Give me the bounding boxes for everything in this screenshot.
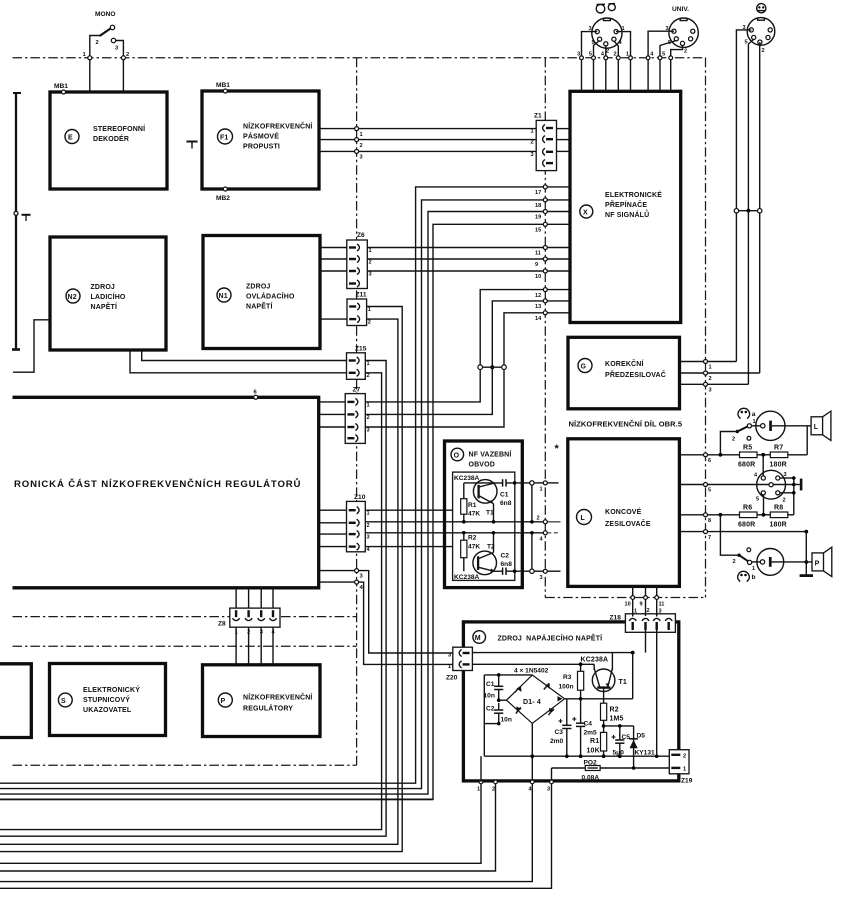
- svg-text:3: 3: [448, 653, 451, 659]
- svg-text:1: 1: [752, 566, 755, 572]
- block F1 band filters: [202, 91, 319, 189]
- connector Z1: [536, 120, 556, 170]
- svg-text:a: a: [752, 411, 756, 418]
- svg-text:5: 5: [756, 497, 759, 503]
- svg-text:2: 2: [683, 754, 686, 760]
- svg-text:2: 2: [492, 787, 495, 793]
- svg-text:R6: R6: [743, 505, 752, 512]
- svg-text:5: 5: [745, 40, 748, 46]
- wires junction row down to G outputs: [735, 213, 737, 362]
- svg-text:REGULÁTORY: REGULÁTORY: [243, 704, 293, 713]
- wires G outputs to right: [680, 361, 737, 363]
- svg-text:1: 1: [360, 132, 363, 138]
- svg-text:b: b: [752, 574, 756, 581]
- block X electronic switches: [570, 91, 681, 322]
- svg-text:OBVOD: OBVOD: [469, 462, 495, 469]
- svg-text:Z18: Z18: [610, 615, 622, 622]
- svg-text:MB2: MB2: [216, 195, 230, 202]
- ground symbol left of F1: [187, 141, 198, 143]
- svg-text:1: 1: [626, 52, 629, 58]
- svg-text:NÍZKOFREKVENČNÍ: NÍZKOFREKVENČNÍ: [243, 693, 313, 702]
- svg-text:X: X: [583, 210, 588, 217]
- svg-text:ZDROJ: ZDROJ: [246, 284, 270, 291]
- svg-text:14: 14: [535, 316, 542, 322]
- svg-text:680R: 680R: [738, 522, 755, 529]
- svg-text:10K: 10K: [587, 748, 600, 755]
- wires DIN B pins down: [648, 31, 674, 91]
- wire node12 to circle A: [480, 290, 543, 366]
- svg-text:1: 1: [540, 487, 543, 493]
- wire R2 bottom to C5 D5: [604, 725, 634, 727]
- inner frame KC238A: [453, 472, 515, 580]
- capacitor C5: [619, 726, 621, 740]
- svg-text:D1- 4: D1- 4: [523, 699, 541, 706]
- svg-text:180R: 180R: [770, 462, 787, 469]
- svg-text:6: 6: [708, 458, 711, 464]
- wire switch left leg: [90, 36, 100, 93]
- svg-text:R5: R5: [743, 445, 752, 452]
- bus nodes for DIN wires: [580, 56, 584, 60]
- left vertical A to rail: [483, 675, 485, 756]
- connector Z11: [347, 299, 367, 326]
- svg-text:ELEKTRONICKÉ: ELEKTRONICKÉ: [605, 190, 662, 199]
- wire Z15 pin1 out: [0, 361, 386, 837]
- svg-text:DEKODÉR: DEKODÉR: [93, 134, 129, 143]
- dash-dot horizontal y=597.5: [545, 597, 705, 599]
- svg-text:2: 2: [531, 140, 534, 146]
- svg-text:*: *: [555, 443, 560, 455]
- svg-text:PO2: PO2: [584, 760, 598, 767]
- switch a: [736, 430, 739, 433]
- svg-text:T1: T1: [619, 679, 627, 686]
- junction dot B: [490, 365, 494, 369]
- DIN output socket: [757, 470, 786, 499]
- svg-text:2m5: 2m5: [584, 730, 598, 737]
- junction link A-B-C: [483, 366, 502, 368]
- svg-text:2: 2: [537, 516, 540, 522]
- resistor R5: [740, 452, 758, 458]
- block O NF coupling circuit: [445, 441, 523, 588]
- switch MONO contact 3: [111, 38, 115, 42]
- resistor R2 psu: [601, 703, 607, 720]
- wire node14 to circle C: [504, 313, 543, 365]
- svg-text:L: L: [814, 424, 819, 431]
- drop node2 to bus: [0, 784, 496, 871]
- svg-text:1: 1: [753, 419, 756, 425]
- svg-text:PROPUSTI: PROPUSTI: [243, 144, 280, 151]
- svg-text:4 × 1N5402: 4 × 1N5402: [514, 668, 549, 675]
- svg-text:7: 7: [708, 535, 711, 541]
- wire L output 6 with R5 R7: [679, 454, 739, 456]
- mic icon above DIN C: [757, 4, 766, 13]
- drop node1 to bus: [0, 784, 481, 864]
- svg-text:LADICÍHO: LADICÍHO: [91, 292, 126, 301]
- svg-text:NAPĚTÍ: NAPĚTÍ: [246, 302, 273, 311]
- jack socket b: [757, 549, 784, 576]
- svg-text:N2: N2: [68, 294, 77, 301]
- resistor R3: [578, 671, 584, 690]
- svg-text:Z15: Z15: [355, 346, 367, 353]
- transistor T2: [473, 551, 497, 575]
- circle C inline connector: [502, 365, 507, 370]
- line 4 from Z10 pin3: [365, 532, 543, 534]
- svg-text:R3: R3: [563, 674, 572, 681]
- svg-text:9: 9: [640, 602, 643, 608]
- bridge rectifier D1-4: [507, 675, 565, 723]
- svg-text:1: 1: [634, 609, 637, 615]
- svg-text:STUPNICOVÝ: STUPNICOVÝ: [83, 695, 130, 704]
- svg-text:1: 1: [367, 361, 370, 367]
- wire node3 big box to Z20 top: [319, 571, 453, 653]
- node MB1 on F1: [223, 89, 227, 93]
- svg-text:F1: F1: [220, 135, 228, 142]
- svg-text:2: 2: [709, 376, 712, 382]
- ground bar: [800, 574, 813, 577]
- svg-text:NAPĚTÍ: NAPĚTÍ: [91, 302, 118, 311]
- svg-text:R1: R1: [468, 502, 477, 509]
- svg-text:8: 8: [708, 518, 711, 524]
- svg-text:2: 2: [369, 259, 372, 265]
- svg-text:NF VAZEBNÍ: NF VAZEBNÍ: [469, 450, 513, 459]
- svg-text:PÁSMOVÉ: PÁSMOVÉ: [243, 132, 279, 141]
- wire pin5 down to R6R8 node: [763, 495, 765, 515]
- capacitor C1: [502, 479, 504, 486]
- wire jack a to speaker L: [772, 425, 811, 427]
- svg-text:6n8: 6n8: [501, 561, 513, 568]
- transistor T1 PSU: [592, 669, 615, 692]
- top wire to bridge: [484, 674, 532, 676]
- wires big box to Z8: [235, 588, 237, 608]
- svg-text:3: 3: [659, 609, 662, 615]
- svg-text:9: 9: [535, 262, 538, 268]
- svg-text:2: 2: [614, 52, 617, 58]
- block S electronic scale indicator: [50, 664, 166, 736]
- svg-text:R2: R2: [610, 707, 619, 714]
- svg-text:2: 2: [96, 40, 99, 46]
- svg-text:PŘEPÍNAČE: PŘEPÍNAČE: [605, 200, 647, 209]
- wire pin2 to right bar: [780, 492, 794, 494]
- svg-text:19: 19: [535, 215, 541, 221]
- svg-text:5: 5: [589, 52, 592, 58]
- connector Z19: [669, 750, 689, 774]
- svg-text:3: 3: [531, 152, 534, 158]
- svg-text:RONICKÁ ČÁST NÍZKOFREKVENČNÍCH: RONICKÁ ČÁST NÍZKOFREKVENČNÍCH REGULÁTOR…: [14, 478, 301, 490]
- svg-text:Z1: Z1: [534, 113, 542, 120]
- svg-text:KC238A: KC238A: [454, 475, 480, 482]
- drop from junction down to bridge-right rail: [632, 653, 634, 699]
- svg-text:C2: C2: [501, 553, 510, 560]
- vertical to ground under speaker P: [805, 532, 807, 576]
- connector Z15: [347, 353, 366, 380]
- svg-text:6n8: 6n8: [500, 500, 512, 507]
- connector Z7: [345, 394, 365, 444]
- svg-text:S: S: [61, 698, 66, 705]
- wire L output 5 to DIN: [679, 484, 793, 486]
- vertical tie and plug tip: [793, 478, 795, 515]
- svg-text:3: 3: [547, 787, 550, 793]
- wires big box to Z7: [319, 401, 346, 403]
- wire N1 to Z11 pin2: [320, 318, 347, 320]
- wires F1 to Z1: [319, 128, 536, 130]
- svg-text:Z10: Z10: [354, 494, 366, 501]
- svg-text:15: 15: [535, 228, 541, 234]
- svg-text:L: L: [581, 515, 586, 522]
- svg-text:1: 1: [367, 402, 370, 408]
- svg-text:2: 2: [367, 373, 370, 379]
- node 1 on dash bus: [88, 56, 92, 60]
- svg-text:3: 3: [784, 472, 787, 478]
- svg-text:3: 3: [367, 427, 370, 433]
- block G correction preamp: [568, 337, 680, 409]
- dash-dot bus top horizontal: [13, 57, 706, 59]
- wire Z20 pin1 to T1 area: [472, 663, 594, 665]
- tie T2 upper limb to line 4: [493, 533, 495, 553]
- svg-text:MB1: MB1: [54, 83, 68, 90]
- wire N2 bottom to Z15 pin1: [142, 350, 347, 361]
- svg-text:11: 11: [535, 251, 541, 257]
- wire node4 big box to Z20 bottom: [319, 582, 453, 664]
- svg-text:2: 2: [367, 415, 370, 421]
- svg-text:PŘEDZESILOVAČ: PŘEDZESILOVAČ: [605, 370, 666, 379]
- wire Z10 pin1 into box O: [365, 509, 452, 511]
- wire switch right leg: [116, 41, 124, 93]
- bridge right horizontal y=698.8: [565, 698, 633, 700]
- wires big box to Z10: [319, 509, 346, 511]
- wire R7 up to speaker line: [806, 426, 808, 455]
- capacitor C3: [566, 699, 568, 726]
- tie line4 to line3 via circle: [531, 533, 533, 569]
- svg-text:R2: R2: [468, 535, 477, 542]
- big block low-frequency regulators electronic part: [13, 397, 319, 588]
- svg-text:13: 13: [535, 304, 541, 310]
- PO2 fuse wire: [552, 767, 670, 769]
- wire Z10 pin4 into box O: [365, 546, 452, 548]
- wire Z11 pin1 out: [0, 307, 402, 852]
- svg-text:Z11: Z11: [356, 292, 367, 299]
- block L output amplifiers: [568, 439, 680, 587]
- svg-text:1M5: 1M5: [610, 716, 624, 723]
- resistor R7: [770, 452, 788, 458]
- box M bottom nodes and drops to bottom buses: [479, 780, 483, 784]
- svg-text:12: 12: [535, 293, 541, 299]
- jack socket a: [756, 411, 785, 440]
- resistor R8: [770, 512, 788, 518]
- diode D5: [633, 726, 635, 768]
- svg-text:MONO: MONO: [95, 11, 116, 18]
- svg-text:O: O: [454, 453, 460, 460]
- node MB2 on F1: [223, 187, 227, 191]
- wire R5R7 node down to pin4: [762, 455, 764, 476]
- cut box left of S: [0, 664, 31, 738]
- svg-text:18: 18: [535, 203, 541, 209]
- wire jack b to speaker P: [772, 561, 812, 563]
- wires Z6 outputs to nodes 11 9 10: [367, 247, 543, 249]
- svg-text:D5: D5: [637, 733, 646, 740]
- node 6 on big box top: [254, 395, 258, 399]
- connector Z6: [347, 240, 368, 289]
- line 1 connector chain: [513, 481, 517, 485]
- capacitor C2: [502, 568, 504, 575]
- resistor R2: [461, 540, 467, 558]
- node 2 on dash bus: [121, 56, 125, 60]
- wires Z1 to box X: [557, 128, 571, 130]
- svg-text:17: 17: [535, 190, 541, 196]
- svg-text:KC238A: KC238A: [454, 574, 480, 581]
- headphone icon b: [738, 571, 750, 581]
- block M power supply: [463, 622, 678, 781]
- dash-dot horizontal bottom y=765.2: [13, 764, 357, 766]
- svg-text:KC238A: KC238A: [581, 657, 609, 664]
- svg-text:100n: 100n: [559, 684, 574, 691]
- connector Z18 (pins up): [625, 614, 675, 633]
- Z18 pin3 drop to rail: [656, 630, 658, 756]
- node with ground on left line: [14, 211, 18, 215]
- svg-text:1: 1: [477, 787, 480, 793]
- wires N1 to Z6: [320, 247, 347, 249]
- svg-text:KOREKČNÍ: KOREKČNÍ: [605, 359, 644, 368]
- tie T1 lower limb to line 2: [493, 504, 495, 522]
- svg-text:3: 3: [540, 575, 543, 581]
- svg-text:C2: C2: [486, 706, 495, 713]
- node MB1 on E: [62, 90, 66, 94]
- dash-dot horizontal y=616.6: [13, 616, 357, 618]
- dash-dot vertical x=545.3: [544, 58, 546, 598]
- svg-text:10: 10: [625, 602, 631, 608]
- DIN socket C phones: [747, 18, 775, 46]
- DIN socket A gramofon: [592, 18, 622, 48]
- connector Z8: [230, 608, 280, 627]
- svg-text:2: 2: [368, 320, 371, 326]
- svg-text:11: 11: [659, 602, 665, 608]
- dash-dot vertical mid x=356.6: [356, 58, 358, 765]
- circle A inline connector: [478, 365, 483, 370]
- svg-text:0,08A: 0,08A: [582, 775, 600, 782]
- resistor R1 psu: [601, 732, 607, 751]
- DIN socket B UNIV: [669, 18, 698, 47]
- svg-text:STEREOFONNÍ: STEREOFONNÍ: [93, 124, 146, 133]
- svg-text:1: 1: [368, 307, 371, 313]
- svg-text:2: 2: [647, 608, 650, 614]
- svg-text:UNIV.: UNIV.: [672, 6, 689, 13]
- svg-text:Z19: Z19: [681, 778, 693, 785]
- svg-text:10n: 10n: [501, 717, 512, 724]
- bottom rail y=756.2: [484, 755, 669, 757]
- svg-text:N1: N1: [219, 293, 228, 300]
- speaker L: [811, 417, 823, 435]
- svg-text:2m0: 2m0: [550, 738, 564, 745]
- svg-text:OVLÁDACÍHO: OVLÁDACÍHO: [246, 292, 295, 301]
- base wire T1 to R2: [603, 688, 605, 704]
- svg-text:5: 5: [662, 52, 665, 58]
- svg-text:3: 3: [577, 52, 580, 58]
- svg-text:M: M: [475, 635, 481, 642]
- svg-text:3: 3: [367, 535, 370, 541]
- line 2 from Z10 pin2: [365, 521, 543, 523]
- switch b: [737, 554, 740, 557]
- wire L output 8 with R6 R8: [679, 514, 739, 516]
- dash-dot vertical right x=705.5: [705, 58, 707, 598]
- wire N2 left to lower left: [13, 320, 50, 372]
- svg-text:C1: C1: [500, 492, 509, 499]
- svg-text:680R: 680R: [738, 462, 755, 469]
- transistor T1: [473, 480, 497, 504]
- resistor R1: [461, 499, 467, 515]
- svg-text:R1: R1: [590, 738, 599, 745]
- wires nodes 17 18 19 15 to left buses: [0, 187, 543, 783]
- svg-text:E: E: [68, 135, 73, 142]
- svg-text:C3: C3: [555, 729, 564, 736]
- svg-text:47K: 47K: [468, 511, 480, 518]
- Z18 pin2 jog to pin1 drop: [645, 630, 647, 653]
- block E stereo decoder: [50, 92, 167, 189]
- svg-text:MB1: MB1: [216, 82, 230, 89]
- connector Z20: [453, 647, 473, 670]
- wire Z11 pin2 out: [0, 319, 398, 844]
- speaker P: [812, 553, 824, 571]
- svg-text:KONCOVÉ: KONCOVÉ: [605, 507, 642, 516]
- svg-text:NÍZKOFREKVENČNÍ DÍL OBR.5: NÍZKOFREKVENČNÍ DÍL OBR.5: [569, 420, 683, 429]
- svg-text:Z6: Z6: [357, 232, 365, 239]
- cut box top-left edge: [15, 93, 17, 351]
- wire L output 7 to speaker P drop: [679, 531, 806, 533]
- svg-text:2: 2: [367, 523, 370, 529]
- line 3 connector chain: [513, 569, 517, 573]
- wire switch a pivot down to R5 node: [720, 432, 737, 455]
- svg-text:R7: R7: [774, 445, 783, 452]
- svg-text:2: 2: [732, 437, 735, 443]
- wire Z20 pin3 across to Z18 drop: [472, 652, 632, 654]
- wire pin3 to right bar: [780, 477, 794, 479]
- block N2 tuning voltage source: [50, 237, 166, 350]
- connector Z10: [347, 501, 366, 551]
- svg-text:1: 1: [369, 248, 372, 254]
- dash-dot horizontal y=646.2: [13, 645, 357, 647]
- svg-text:10: 10: [535, 274, 541, 280]
- wire Z15 pin2 out: [0, 373, 382, 830]
- svg-text:3: 3: [709, 388, 712, 394]
- svg-text:2: 2: [762, 48, 765, 54]
- wires box L bottom to Z18: [632, 586, 634, 616]
- svg-text:2: 2: [733, 559, 736, 565]
- svg-text:47K: 47K: [468, 544, 480, 551]
- svg-text:UKAZOVATEL: UKAZOVATEL: [83, 707, 132, 714]
- svg-text:KY131: KY131: [635, 750, 655, 757]
- svg-text:C1: C1: [486, 681, 495, 688]
- capacitor C4: [580, 699, 582, 723]
- wire switch b pivot up to R6 node: [720, 515, 739, 555]
- svg-text:ZDROJ NAPÁJECÍHO NAPĚTÍ: ZDROJ NAPÁJECÍHO NAPĚTÍ: [498, 634, 604, 643]
- wire Z7 pin2 to node13: [365, 301, 543, 415]
- svg-text:1: 1: [709, 365, 712, 371]
- switch MONO lever: [100, 29, 111, 37]
- svg-text:Z8: Z8: [218, 621, 226, 628]
- svg-text:R8: R8: [774, 505, 783, 512]
- svg-text:ELEKTRONICKÝ: ELEKTRONICKÝ: [83, 685, 140, 694]
- bridge bottom drop: [531, 723, 533, 782]
- svg-text:Z20: Z20: [446, 675, 458, 682]
- drop node3 to bus: [0, 784, 552, 889]
- svg-text:P: P: [815, 560, 820, 567]
- block P low-frequency regulators: [203, 665, 321, 737]
- svg-text:3: 3: [369, 271, 372, 277]
- thick lowest line of group1 overlay: [0, 798, 433, 800]
- svg-text:1: 1: [367, 511, 370, 517]
- svg-text:ZESILOVAČE: ZESILOVAČE: [605, 519, 651, 528]
- svg-text:ZDROJ: ZDROJ: [91, 284, 115, 291]
- svg-text:180R: 180R: [770, 522, 787, 529]
- wire N2 bottom to Z15 pin2: [130, 350, 347, 373]
- nodes on Z1 dash line: [547, 186, 570, 188]
